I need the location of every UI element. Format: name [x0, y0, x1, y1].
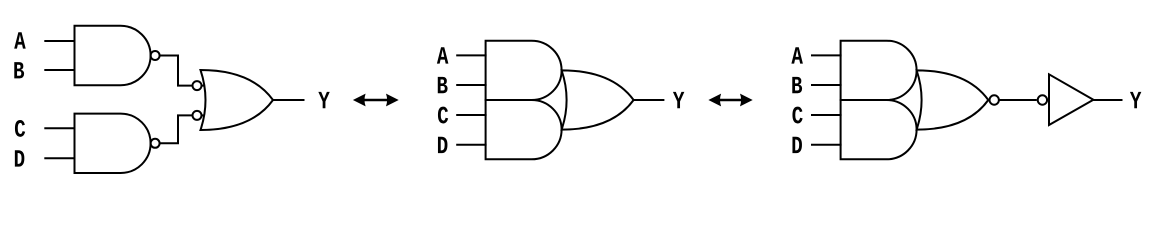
wire input A to AND U7 [811, 54, 842, 56]
inverter U10 input bubble [1038, 95, 1047, 104]
wire input D to NAND U2 [44, 157, 75, 159]
NAND U2 output bubble [151, 139, 160, 148]
wire input A to AND U4 [456, 54, 486, 56]
wire NAND U1 output to OR U3 top input [160, 56, 193, 86]
wire NOR U9 to inverter U10 [999, 99, 1037, 101]
wire input C to NAND U2 [44, 127, 75, 129]
input label C (circuit 2) [438, 107, 448, 124]
input label A (circuit 2) [437, 47, 449, 63]
inverter U10 triangle [1049, 74, 1093, 125]
wire input B to NAND U1 [44, 69, 75, 71]
input label D (circuit 2) [438, 137, 447, 153]
AND gate U7 (inputs A,B) [841, 41, 917, 100]
OR U3 top input bubble [193, 81, 202, 90]
OR U3 bottom input bubble [193, 111, 202, 120]
wire NAND U2 output to OR U3 bottom input [160, 115, 193, 143]
wire OR U6 output to Y [634, 99, 665, 101]
OR U3 bottom input stub [202, 114, 205, 116]
AND gate U8 (inputs C,D) [841, 100, 917, 159]
output label Y (circuit 2) [673, 92, 684, 108]
input label B (circuit 3) [792, 77, 802, 93]
OR gate U3 (negative-input OR) [201, 70, 274, 130]
equivalence arrow 1 shaft [364, 99, 388, 102]
AND gate U5 (inputs C,D) [486, 100, 562, 159]
equivalence arrow 2 shaft [720, 99, 743, 102]
NAND gate U2 (inputs C,D) [75, 114, 151, 173]
input label D (circuit 3) [792, 137, 801, 153]
output label Y (circuit 1) [318, 92, 329, 108]
input label A (circuit 1) [14, 32, 26, 48]
equivalence arrow 2 left head [708, 94, 721, 107]
input label D (circuit 1) [15, 150, 24, 166]
AND gate U4 (inputs A,B) [486, 41, 562, 100]
wire input C to AND U8 [811, 114, 842, 116]
wire input B to AND U7 [811, 84, 842, 86]
NAND U1 output bubble [151, 51, 160, 60]
input label C (circuit 3) [792, 107, 802, 124]
wire OR U3 output to Y [273, 99, 305, 101]
NOR gate U9 body [917, 70, 989, 129]
output label Y (circuit 3) [1130, 92, 1141, 108]
wire input D to AND U8 [811, 144, 842, 146]
NOR U9 output bubble [990, 95, 999, 104]
equivalence arrow 2 right head [740, 94, 753, 107]
input label B (circuit 2) [438, 77, 448, 93]
equivalence arrow 1 right head [386, 94, 399, 107]
wire input C to AND U5 [456, 114, 486, 116]
OR gate U6 [562, 70, 634, 129]
OR U3 top input stub [202, 85, 205, 87]
wire input A to NAND U1 [44, 40, 75, 42]
input label B (circuit 1) [14, 62, 24, 78]
wire inverter U10 output to Y [1093, 99, 1122, 101]
NAND gate U1 (inputs A,B) [75, 26, 151, 85]
input label C (circuit 1) [15, 120, 25, 137]
equivalence arrow 1 left head [353, 94, 366, 107]
wire input B to AND U4 [456, 84, 486, 86]
wire input D to AND U5 [456, 144, 486, 146]
input label A (circuit 3) [791, 47, 803, 63]
